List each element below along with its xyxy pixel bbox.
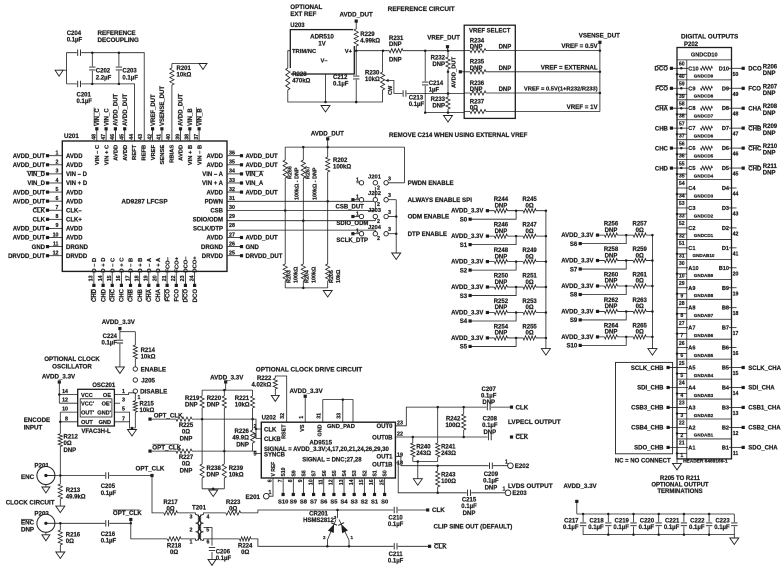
resistor R203 (282, 264, 299, 283)
svg-text:A2: A2 (688, 425, 695, 431)
power AVDD_DUT ref (340, 12, 373, 51)
svg-text:25: 25 (679, 361, 685, 367)
svg-text:A7: A7 (688, 326, 695, 332)
svg-text:28: 28 (679, 301, 685, 307)
svg-text:DCO+: DCO+ (193, 256, 199, 273)
svg-text:AVDD_DUT: AVDD_DUT (13, 199, 46, 205)
svg-text:AVDD: AVDD (206, 236, 223, 242)
resistor R233 (431, 71, 451, 113)
svg-text:0.1µF: 0.1µF (481, 394, 497, 400)
svg-text:GNDAB1: GNDAB1 (694, 433, 714, 438)
svg-text:0.1µF: 0.1µF (664, 525, 680, 531)
svg-text:ALWAYS ENABLE SPI: ALWAYS ENABLE SPI (408, 197, 473, 204)
svg-text:DNP: DNP (605, 304, 618, 310)
svg-text:S6: S6 (570, 242, 578, 248)
svg-text:E203: E203 (512, 490, 527, 497)
svg-text:1: 1 (56, 151, 59, 157)
svg-text:SCLK_CHB: SCLK_CHB (631, 366, 664, 372)
svg-text:OPTIONAL: OPTIONAL (290, 4, 322, 11)
svg-text:R213: R213 (66, 488, 81, 494)
wire R235 to AVDD_DUT (460, 71, 464, 73)
U201 pin 38 VIN + B (185, 108, 194, 166)
svg-text:0.1µF: 0.1µF (409, 102, 425, 108)
svg-text:SENSE: SENSE (160, 145, 166, 165)
IC U201 AD9287 body (62, 133, 227, 271)
U201 pin 33 VIN + A (202, 178, 264, 187)
svg-text:C224: C224 (103, 334, 118, 340)
capacitor C221 (664, 513, 688, 536)
svg-text:ENABLE: ENABLE (141, 367, 166, 374)
svg-text:2: 2 (190, 528, 193, 534)
U202 pin 23 OUT0 (376, 406, 511, 430)
svg-text:DNP: DNP (763, 151, 776, 157)
text OPTIONAL EXT REF (290, 4, 322, 18)
svg-text:VREF = 1V: VREF = 1V (567, 104, 599, 111)
svg-text:1µF: 1µF (429, 88, 440, 94)
svg-text:S9: S9 (570, 318, 578, 324)
U201 pin 28 SCLK/DTP (193, 223, 235, 232)
svg-text:2.2µF: 2.2µF (96, 75, 112, 81)
svg-text:R216: R216 (66, 533, 81, 539)
resistors R252 R253 net S4 (451, 299, 547, 325)
svg-text:R247: R247 (522, 223, 537, 229)
svg-text:5: 5 (56, 187, 59, 193)
svg-text:45: 45 (733, 172, 739, 178)
svg-text:1: 1 (356, 229, 359, 235)
svg-text:S9: S9 (291, 470, 297, 476)
svg-text:A10: A10 (688, 266, 698, 272)
resistors R254 R255 net S5 (451, 324, 547, 350)
jumper J204 (351, 225, 396, 242)
U201 pin 44 REFT (129, 134, 138, 160)
capacitor C224 (102, 332, 124, 367)
resistor R215 (132, 393, 154, 428)
transformer T201 (189, 505, 212, 546)
capacitor C213 (402, 90, 424, 108)
svg-text:R255: R255 (522, 324, 537, 330)
svg-text:48: 48 (733, 112, 739, 118)
U202 pin 31 GND (316, 413, 323, 437)
svg-text:CLK: CLK (33, 218, 46, 224)
U201 pin 31 PDWN (205, 196, 235, 205)
svg-text:SIGNAL = DNC;27,28: SIGNAL = DNC;27,28 (302, 458, 362, 464)
wire U203 Vminus (324, 74, 382, 103)
power AVDD_3.3V cluster (210, 375, 244, 391)
svg-text:10kΩ: 10kΩ (140, 408, 155, 414)
svg-text:DECOUPLING: DECOUPLING (98, 37, 139, 44)
svg-text:VIN + B: VIN + B (188, 145, 194, 165)
svg-text:C208: C208 (483, 417, 498, 423)
text R205 TO R211 note (651, 476, 709, 495)
svg-text:PWDN ENABLE: PWDN ENABLE (408, 180, 454, 187)
svg-text:DNP: DNP (483, 430, 496, 436)
U202 pin 3 CLKB (254, 434, 282, 444)
U201 pin 4 VIN + D (27, 178, 88, 187)
ground VREF divider (444, 116, 453, 123)
ground decoupling left (55, 70, 67, 76)
U201 pin 34 VIN – A (202, 169, 264, 178)
svg-text:B3: B3 (722, 405, 729, 411)
svg-text:R212: R212 (64, 435, 79, 441)
svg-text:S3: S3 (351, 500, 359, 506)
text CLOCK CIRCUIT (6, 500, 55, 507)
svg-text:D6: D6 (722, 146, 729, 152)
svg-text:0.1µF: 0.1µF (77, 99, 93, 105)
svg-text:44: 44 (733, 192, 739, 198)
label ALWAYS ENABLE SPI (408, 197, 473, 204)
svg-text:0.1µF: 0.1µF (483, 479, 499, 485)
svg-text:DNP: DNP (499, 45, 512, 51)
label VSENSE_DUT (579, 33, 620, 112)
svg-text:C10: C10 (688, 66, 698, 72)
svg-text:DCO: DCO (748, 67, 762, 73)
svg-text:D8: D8 (722, 106, 729, 112)
svg-text:17: 17 (733, 331, 739, 337)
svg-text:DNP: DNP (180, 436, 193, 442)
svg-text:DNP: DNP (605, 228, 618, 234)
U202 pin 19 OUT1 (376, 453, 510, 467)
U202 pin 18 OUT1B (372, 461, 508, 495)
svg-text:D5: D5 (722, 166, 729, 172)
svg-text:R221: R221 (235, 396, 250, 402)
svg-text:AVDD_3.3V: AVDD_3.3V (451, 336, 483, 342)
svg-text:100kΩ - DNP: 100kΩ - DNP (313, 167, 319, 200)
svg-text:3: 3 (388, 227, 391, 233)
svg-text:VSENSE_DUT: VSENSE_DUT (579, 33, 620, 40)
svg-text:0.1µF: 0.1µF (639, 525, 655, 531)
svg-text:VIN – C: VIN – C (95, 144, 101, 165)
text HEADER 6469169-1 (683, 459, 728, 465)
svg-text:B9: B9 (722, 286, 729, 292)
svg-text:R257: R257 (633, 222, 648, 228)
wire LVPECL gnd (413, 460, 438, 478)
wire PDWN (227, 187, 375, 201)
svg-text:VCC': VCC' (81, 402, 95, 408)
IC U203 ADR510 (290, 23, 354, 74)
svg-text:100kΩ: 100kΩ (333, 165, 351, 171)
resistor R201 (169, 64, 203, 142)
U201 pin 24 DCO+ (189, 256, 198, 303)
svg-text:OPTIONAL CLOCK DRIVE CIRCUIT: OPTIONAL CLOCK DRIVE CIRCUIT (256, 367, 362, 374)
svg-text:DNP: DNP (470, 45, 483, 51)
svg-text:DNP: DNP (485, 485, 498, 491)
OSC201 pin 14 VCC (59, 389, 93, 399)
svg-text:10kΩ: 10kΩ (177, 73, 192, 79)
svg-text:DRVDD: DRVDD (202, 254, 224, 260)
svg-text:1: 1 (138, 395, 141, 401)
svg-text:S5: S5 (332, 470, 338, 476)
svg-text:C1: C1 (688, 246, 695, 252)
svg-text:S2: S2 (460, 268, 468, 274)
label PWDN ENABLE (408, 180, 454, 187)
svg-text:GNDCD9: GNDCD9 (694, 74, 714, 79)
svg-text:OUT: OUT (81, 420, 93, 426)
svg-text:AVDD_3.3V: AVDD_3.3V (561, 259, 593, 265)
svg-text:S8: S8 (300, 500, 308, 506)
svg-text:0Ω: 0Ω (526, 305, 534, 311)
resistors R250 R251 net S3 (451, 274, 547, 300)
svg-text:AVDD_DUT: AVDD_DUT (123, 93, 129, 126)
label OPT_CLK line (148, 418, 151, 421)
svg-text:CHA: CHA (655, 106, 669, 112)
svg-text:CHC: CHC (120, 288, 126, 302)
potentiometer R230 (365, 51, 394, 102)
svg-text:CHB: CHB (129, 288, 135, 302)
svg-text:R237: R237 (470, 99, 485, 105)
U202 pin 12 S5 (329, 470, 339, 505)
svg-text:R209: R209 (763, 124, 778, 130)
svg-text:0.1µF: 0.1µF (388, 559, 404, 565)
svg-text:0Ω: 0Ω (526, 254, 534, 260)
svg-text:SDO_CHB: SDO_CHB (634, 446, 664, 452)
svg-text:AVDD: AVDD (206, 163, 223, 169)
svg-text:R250: R250 (494, 274, 509, 280)
svg-text:CHD: CHD (655, 166, 669, 172)
svg-text:GNDCD4: GNDCD4 (694, 173, 714, 178)
U201 pin 43 REFB (138, 134, 147, 161)
svg-text:AVDD_3.3V: AVDD_3.3V (561, 335, 593, 341)
U201 pin 9 AVDD (13, 223, 83, 232)
svg-text:A4: A4 (688, 386, 696, 392)
svg-text:DNP: DNP (470, 66, 483, 72)
wire pulldown bus (285, 287, 328, 290)
svg-text:0Ω: 0Ω (526, 331, 534, 337)
svg-text:10: 10 (62, 407, 68, 413)
svg-text:S4: S4 (341, 500, 349, 506)
svg-text:0Ω: 0Ω (526, 203, 534, 209)
svg-text:S3: S3 (460, 294, 468, 300)
svg-text:3: 3 (254, 434, 257, 440)
svg-text:S8: S8 (301, 470, 307, 476)
svg-text:C6: C6 (688, 146, 695, 152)
svg-text:CSB4_CHB: CSB4_CHB (631, 426, 664, 432)
svg-text:FCO: FCO (165, 289, 171, 302)
U202 pin 13 S4 (339, 470, 349, 505)
svg-text:10kΩ: 10kΩ (365, 77, 380, 83)
svg-text:VCC: VCC (81, 393, 93, 399)
svg-text:CHD: CHD (748, 166, 762, 172)
svg-text:RBIAS: RBIAS (169, 145, 175, 163)
svg-text:29: 29 (679, 281, 685, 287)
svg-text:VIN + D: VIN + D (66, 181, 88, 187)
svg-text:R256: R256 (604, 222, 619, 228)
svg-text:DNP: DNP (763, 111, 776, 117)
svg-text:VREF_DUT: VREF_DUT (427, 35, 460, 42)
svg-text:R215: R215 (140, 402, 155, 408)
svg-text:DRVDD_DUT: DRVDD_DUT (8, 254, 45, 260)
svg-text:GNDCD8: GNDCD8 (694, 94, 714, 99)
svg-text:DNP: DNP (482, 400, 495, 406)
svg-text:0Ω: 0Ω (526, 229, 534, 235)
resistor R223 (210, 500, 258, 516)
text NC = NO CONNECT (615, 459, 671, 465)
svg-text:R239: R239 (229, 466, 244, 472)
svg-text:1: 1 (190, 540, 193, 546)
svg-text:0Ω: 0Ω (167, 507, 175, 513)
U201 pin 21 FCO– (162, 256, 171, 301)
U201 pin 42 VREF (147, 94, 156, 160)
OSC201 pin 7 GND (99, 416, 136, 428)
svg-text:D – D: D – D (92, 258, 98, 273)
svg-text:B2: B2 (722, 425, 729, 431)
svg-text:43: 43 (138, 134, 144, 140)
svg-text:VIN – A: VIN – A (202, 172, 223, 178)
svg-text:21: 21 (679, 441, 685, 447)
capacitor C216 (101, 520, 117, 545)
svg-text:DRVDD_DUT: DRVDD_DUT (246, 254, 283, 260)
svg-text:AVDD: AVDD (179, 145, 185, 161)
svg-text:43: 43 (733, 211, 739, 217)
svg-text:SCLK_DTP: SCLK_DTP (336, 238, 368, 244)
svg-text:0Ω: 0Ω (636, 253, 644, 259)
svg-text:AVDD: AVDD (114, 145, 120, 161)
connector P202 row C9/D9 (655, 81, 778, 99)
resistors R260 R261 net S8 (561, 273, 653, 299)
capacitor C206 (208, 547, 231, 562)
svg-text:OPT_CLK: OPT_CLK (113, 510, 142, 517)
svg-text:REMOVE C214 WHEN USING EXTERNA: REMOVE C214 WHEN USING EXTERNAL VREF (389, 132, 528, 139)
OSC201 pin 5 GND' (97, 407, 129, 422)
svg-text:D – C: D – C (110, 257, 116, 273)
svg-text:44: 44 (129, 134, 135, 140)
U201 pin 18 D + B (134, 258, 143, 302)
svg-text:GND: GND (99, 420, 111, 426)
U201 pin 11 DRGND (32, 241, 89, 250)
svg-text:C223: C223 (715, 519, 730, 525)
svg-text:J204: J204 (368, 225, 382, 231)
svg-text:1: 1 (356, 211, 359, 217)
svg-text:R223: R223 (226, 500, 241, 506)
svg-text:R218: R218 (167, 544, 182, 550)
capacitor C223 (714, 514, 738, 535)
svg-text:AVDD: AVDD (66, 227, 83, 233)
svg-text:DNP: DNP (389, 58, 402, 64)
svg-text:C221: C221 (665, 519, 680, 525)
svg-text:C206: C206 (216, 550, 231, 556)
svg-text:OPTIONAL OUTPUT: OPTIONAL OUTPUT (651, 483, 709, 489)
resistor R240 (410, 437, 432, 462)
svg-text:AVDD_DUT: AVDD_DUT (13, 227, 46, 233)
svg-text:CLKB: CLKB (264, 437, 281, 443)
wire termination top bus (577, 513, 735, 515)
svg-text:S6: S6 (322, 470, 328, 476)
svg-text:47: 47 (733, 132, 739, 138)
svg-text:CLK+: CLK+ (66, 218, 82, 224)
svg-text:C212: C212 (333, 75, 348, 81)
U201 pin 39 AVDD (175, 93, 184, 160)
resistor R226 (232, 429, 255, 448)
svg-text:18: 18 (733, 311, 739, 317)
svg-text:D – A: D – A (147, 257, 153, 272)
svg-text:CLK: CLK (516, 434, 529, 441)
resistors R248 R249 net S2 (451, 248, 547, 274)
svg-text:R258: R258 (604, 247, 619, 253)
power AVDD_DUT sense (451, 56, 462, 88)
svg-text:ENCODE: ENCODE (24, 417, 50, 424)
svg-text:R252: R252 (494, 299, 509, 305)
svg-text:32: 32 (280, 413, 286, 419)
box VREF SELECT (464, 25, 515, 118)
svg-text:SDI_CHA: SDI_CHA (748, 386, 775, 392)
svg-text:CLK–: CLK– (66, 208, 82, 214)
svg-text:DNP: DNP (605, 253, 618, 259)
svg-text:R263: R263 (633, 298, 648, 304)
svg-text:CHC: CHC (655, 146, 669, 152)
wire AVDD_DUT top rail (285, 146, 404, 149)
svg-text:J201: J201 (368, 174, 382, 180)
svg-text:AD9515: AD9515 (309, 439, 332, 446)
U201 pin 29 SDIO/ODM (193, 214, 235, 223)
svg-text:0.1µF: 0.1µF (588, 525, 604, 531)
svg-text:DNP: DNP (495, 229, 508, 235)
connector P201 ENC (21, 463, 55, 494)
OSC201 pin 8 OUT (59, 412, 93, 426)
svg-text:12: 12 (62, 398, 68, 404)
U201 pin 17 D – B (125, 258, 134, 302)
jumper pin DISABLE (133, 389, 167, 396)
U201 pin 3 VIN – D (26, 169, 87, 178)
svg-text:CHD: CHD (92, 288, 98, 302)
svg-text:S7: S7 (312, 470, 318, 476)
svg-text:GND: GND (318, 424, 324, 436)
wire vsense row3 (515, 87, 600, 93)
svg-text:0Ω: 0Ω (66, 539, 74, 545)
svg-text:SCLK_CHA: SCLK_CHA (748, 366, 781, 372)
power AVDD_3.3V VS (290, 388, 324, 422)
svg-text:SDIO_ODM: SDIO_ODM (336, 221, 368, 227)
svg-text:HSMS2812: HSMS2812 (303, 518, 334, 524)
U201 pin 45 AVDD (120, 93, 129, 160)
svg-text:VIN_C: VIN_C (104, 108, 110, 126)
U202 pin 7 S10 (278, 467, 288, 505)
text LVPECL OUTPUT (508, 419, 561, 426)
svg-text:23: 23 (679, 401, 685, 407)
wire OPT_CLK line (150, 419, 261, 438)
svg-text:R248: R248 (494, 248, 509, 254)
svg-text:GNDAB5: GNDAB5 (694, 353, 714, 358)
svg-text:AVDD_DUT: AVDD_DUT (13, 190, 46, 196)
svg-text:22: 22 (679, 421, 685, 427)
svg-text:DNP: DNP (763, 171, 776, 177)
svg-text:REFB: REFB (142, 145, 148, 161)
wire CSB (227, 202, 375, 211)
svg-text:AVDD: AVDD (206, 154, 223, 160)
svg-text:4.99kΩ: 4.99kΩ (360, 39, 380, 45)
connector P202 row A1/B1 (634, 441, 778, 459)
svg-text:DNP: DNP (499, 87, 512, 93)
svg-text:0Ω: 0Ω (170, 550, 178, 556)
svg-text:3: 3 (388, 176, 391, 182)
resistor R216 (57, 523, 81, 552)
svg-text:C218: C218 (589, 519, 604, 525)
U201 pin 13 D – D (89, 258, 98, 302)
svg-text:A1: A1 (688, 445, 695, 451)
text OPTIONAL CLOCK DRIVE CIRCUIT (256, 367, 362, 374)
svg-text:V+: V+ (345, 49, 353, 55)
ground R216 (56, 552, 65, 559)
ground OSC/R215 (128, 427, 137, 436)
svg-text:TERMINATIONS: TERMINATIONS (657, 489, 702, 495)
label OPT_CLKB source (113, 510, 142, 525)
capacitor C222 (689, 513, 713, 536)
svg-text:VREF = 0.5V: VREF = 0.5V (561, 43, 598, 50)
svg-text:4: 4 (56, 178, 59, 184)
svg-text:FCO–: FCO– (165, 256, 171, 272)
svg-text:C4: C4 (688, 186, 696, 192)
svg-text:C205: C205 (101, 484, 116, 490)
svg-text:AVDD_DUT: AVDD_DUT (246, 163, 279, 169)
svg-text:VIN – D: VIN – D (66, 172, 88, 178)
